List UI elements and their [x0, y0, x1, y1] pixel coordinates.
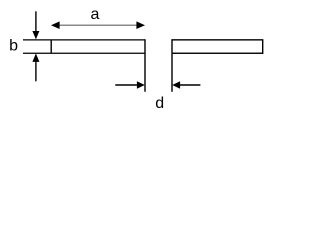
- svg-text:d: d: [155, 95, 164, 112]
- svg-text:b: b: [9, 38, 18, 55]
- svg-text:a: a: [91, 6, 100, 23]
